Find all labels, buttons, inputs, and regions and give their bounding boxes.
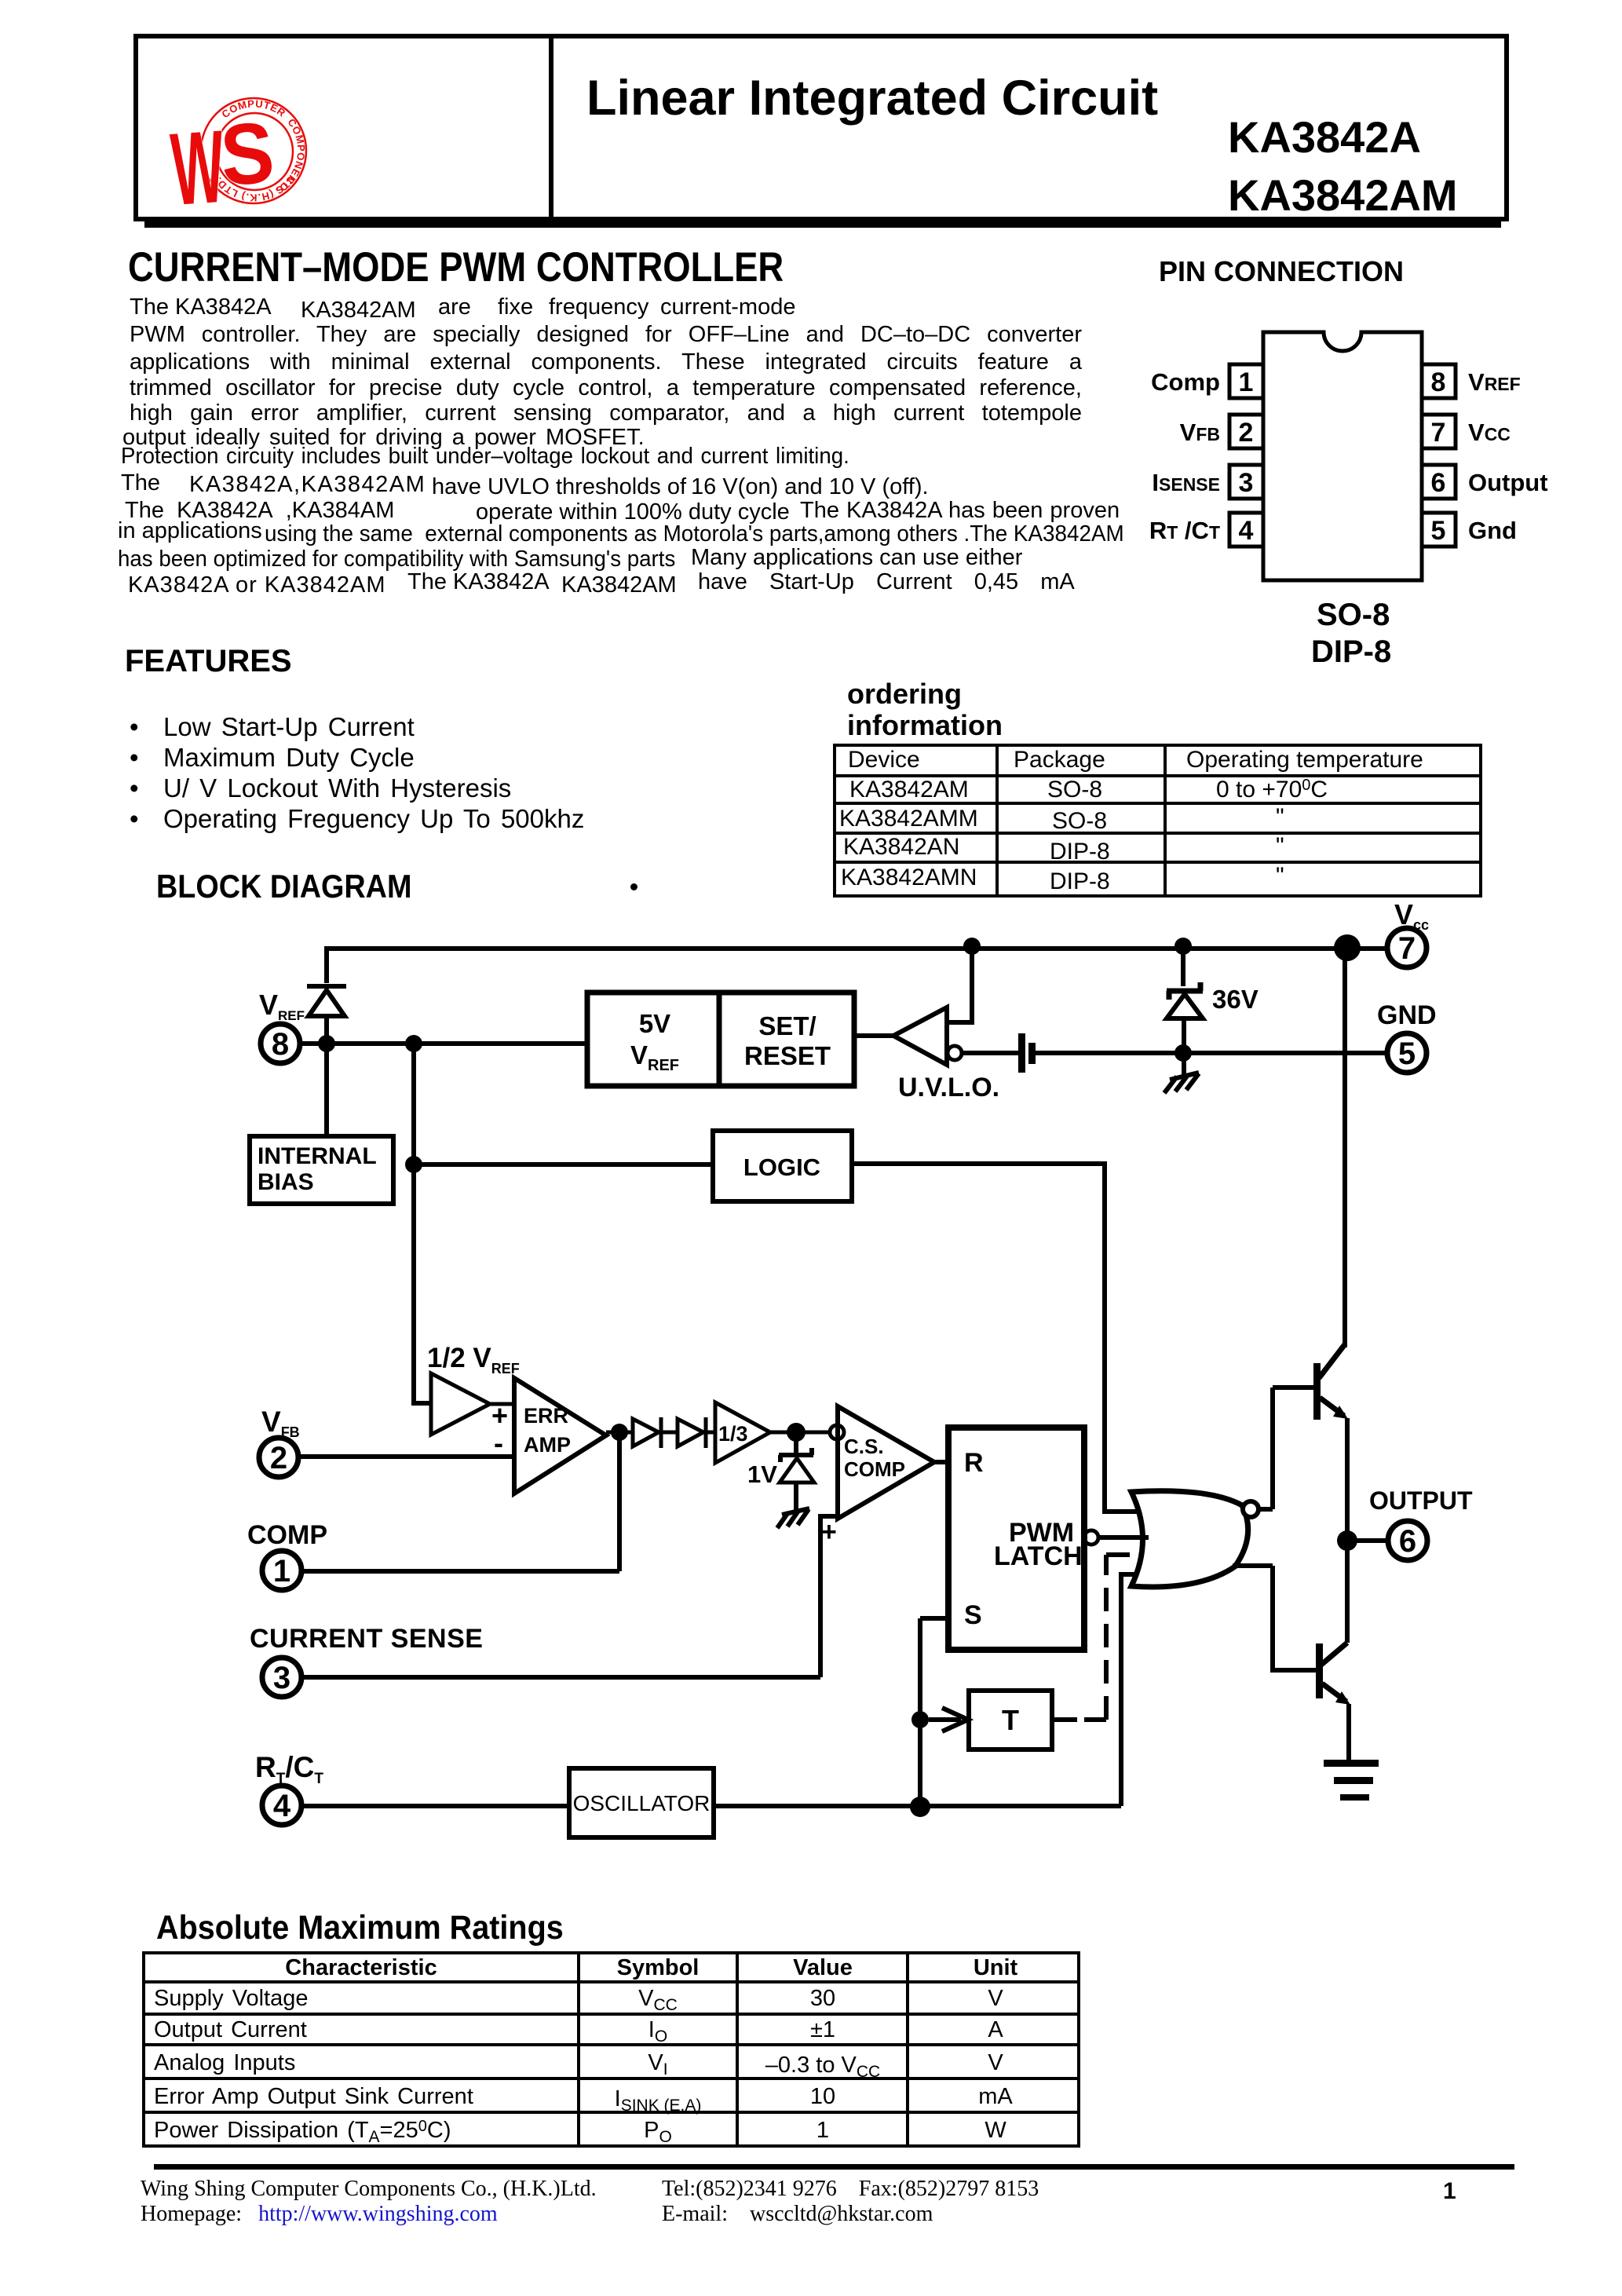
pin 6 box <box>1422 465 1456 499</box>
op-amp C.S. COMP <box>838 1406 934 1519</box>
wire uvlo output <box>962 1051 1018 1055</box>
svg-text:S: S <box>217 104 277 204</box>
transistor Q2 (bottom NPN) <box>1316 1541 1350 1760</box>
svg-text:INTERNAL: INTERNAL <box>258 1143 377 1169</box>
pin 7 box <box>1422 415 1456 448</box>
junction dot L (osc node) <box>910 1797 930 1817</box>
wire output node to pin6 <box>1347 1538 1389 1543</box>
wire S input riser <box>920 1618 948 1807</box>
wire pin4 to oscillator <box>302 1804 569 1808</box>
svg-text:7: 7 <box>1431 418 1446 448</box>
wire pin8 to 5V ref block <box>301 1041 587 1046</box>
svg-text:SET/: SET/ <box>758 1011 816 1040</box>
svg-text:4: 4 <box>273 1789 291 1823</box>
op-amp U.V.L.O. comparator <box>893 1007 962 1065</box>
capacitor C1 <box>1018 1033 1036 1073</box>
junction dot B <box>405 1035 422 1052</box>
svg-text:Characteristic: Characteristic <box>285 1955 437 1980</box>
diode D3 <box>678 1417 715 1448</box>
wire Vcc top rail <box>327 946 1386 983</box>
zener diode Z1 36V <box>1167 982 1203 1053</box>
svg-text:10: 10 <box>810 2084 835 2109</box>
junction dot A <box>318 1035 335 1052</box>
pin labels right <box>1468 370 1521 394</box>
svg-text:±1: ±1 <box>810 2017 835 2042</box>
block T (toggle) <box>969 1691 1052 1749</box>
wire buffer to erramp <box>490 1402 515 1406</box>
svg-text:VI: VI <box>648 2050 667 2078</box>
svg-text:ERR: ERR <box>524 1404 568 1428</box>
svg-text:1/3: 1/3 <box>718 1422 748 1446</box>
node pin 6 OUTPUT <box>1388 1521 1427 1560</box>
junction dot I <box>787 1423 806 1442</box>
svg-text:Symbol: Symbol <box>617 1955 700 1980</box>
block U2 5V VREF / SET-RESET <box>587 993 854 1086</box>
block LOGIC <box>713 1131 852 1201</box>
pin number labels <box>270 931 1416 1823</box>
text LOGIC <box>743 1153 820 1181</box>
svg-text:S: S <box>964 1600 982 1630</box>
text T <box>1002 1704 1019 1736</box>
svg-text:30: 30 <box>810 1986 835 2011</box>
svg-text:Power Dissipation (TA=250C): Power Dissipation (TA=250C) <box>154 2118 451 2146</box>
text R S PWM LATCH <box>964 1448 1083 1630</box>
svg-text:U.V.L.O.: U.V.L.O. <box>898 1073 999 1102</box>
junction dot C <box>405 1156 422 1173</box>
svg-text:–0.3 to VCC: –0.3 to VCC <box>765 2053 880 2081</box>
svg-text:VFB: VFB <box>261 1406 300 1440</box>
svg-text:KA3842AMN: KA3842AMN <box>841 865 977 890</box>
svg-text:AMP: AMP <box>524 1433 571 1457</box>
svg-text:COMP: COMP <box>247 1520 327 1550</box>
pin 8 box <box>1422 364 1456 398</box>
svg-text:36V: 36V <box>1212 985 1259 1014</box>
svg-text:Output Current: Output Current <box>154 2017 307 2042</box>
svg-text:5: 5 <box>1398 1036 1416 1071</box>
ground (hatched, uvlo) <box>1164 1053 1199 1093</box>
svg-text:4: 4 <box>1239 516 1254 546</box>
svg-text:mA: mA <box>978 2084 1013 2109</box>
text ERR AMP <box>524 1404 571 1457</box>
svg-text:SO-8: SO-8 <box>1052 808 1107 834</box>
zener diode Z2 1V <box>779 1432 814 1511</box>
label 1/2 VREF <box>427 1343 520 1377</box>
node pin 4 RT/CT <box>262 1786 301 1825</box>
wire vref vertical bus <box>414 1044 431 1403</box>
svg-text:": " <box>1276 863 1284 889</box>
node pin 7 Vcc <box>1387 928 1427 967</box>
svg-text:7: 7 <box>1398 931 1416 966</box>
wire dashed T feedback <box>1052 1555 1140 1720</box>
wire latch output to NOR <box>1098 1535 1149 1540</box>
svg-text:W: W <box>985 2118 1006 2143</box>
node latch output bubble <box>1084 1530 1098 1545</box>
svg-text:KA3842AM: KA3842AM <box>849 777 969 803</box>
wire NOR output to top base <box>1259 1387 1315 1509</box>
svg-text:": " <box>1276 804 1284 830</box>
svg-text:COMP: COMP <box>844 1457 905 1481</box>
transistor Q1 (top NPN) <box>1313 1344 1348 1541</box>
svg-text:KA3842AMM: KA3842AMM <box>839 806 978 832</box>
svg-text:DIP-8: DIP-8 <box>1050 839 1110 865</box>
svg-text:5V: 5V <box>639 1009 670 1038</box>
svg-text:V: V <box>988 2050 1003 2075</box>
pin 5 box <box>1422 513 1456 547</box>
svg-text:DIP-8: DIP-8 <box>1050 868 1110 894</box>
wire cscomp to latch R <box>934 1460 948 1464</box>
svg-text:2: 2 <box>1239 418 1254 448</box>
WS logo <box>149 71 338 228</box>
IC package body (DIP-8 outline) <box>1263 332 1422 580</box>
svg-text:OSCILLATOR: OSCILLATOR <box>573 1791 711 1815</box>
svg-text:Unit: Unit <box>974 1955 1018 1980</box>
svg-text:VCC: VCC <box>638 1986 678 2014</box>
label VREF (pin8) <box>259 989 305 1023</box>
label 36V <box>1212 985 1259 1014</box>
buffer 1/3 <box>715 1402 830 1463</box>
svg-text:-: - <box>494 1427 503 1459</box>
svg-text:VREF: VREF <box>259 989 305 1023</box>
pin 2 box <box>1229 415 1263 448</box>
label GND (pin5) <box>1377 1000 1437 1030</box>
op-amp ERR AMP <box>514 1378 606 1493</box>
wire NOR bottom tap to bottom base <box>1233 1566 1317 1670</box>
svg-text:CURRENT SENSE: CURRENT SENSE <box>250 1624 483 1654</box>
label CURRENT SENSE (pin3) <box>250 1624 483 1654</box>
svg-text:3: 3 <box>1239 468 1254 498</box>
wire oscillator to NOR bottom input <box>714 1574 1138 1806</box>
wire arrow into T <box>929 1708 968 1731</box>
text C.S. COMP <box>844 1435 905 1481</box>
svg-text:LOGIC: LOGIC <box>743 1153 820 1181</box>
svg-text:LATCH: LATCH <box>994 1541 1083 1571</box>
wire gnd rail <box>1036 1051 1386 1055</box>
text plus cscomp <box>821 1517 837 1547</box>
svg-text:2: 2 <box>270 1441 287 1475</box>
svg-text:8: 8 <box>272 1027 289 1062</box>
wire internal bias drop <box>324 1044 329 1136</box>
svg-text:Error Amp Output Sink Current: Error Amp Output Sink Current <box>154 2084 473 2109</box>
gate NOR U3 <box>1131 1491 1259 1587</box>
svg-text:OUTPUT: OUTPUT <box>1369 1486 1473 1515</box>
label OUTPUT (pin6) <box>1369 1486 1473 1515</box>
svg-text:PO: PO <box>644 2118 672 2146</box>
wire zener drop <box>1181 946 1185 986</box>
junction dot F <box>1174 938 1192 955</box>
svg-text:3: 3 <box>273 1661 290 1695</box>
label COMP (pin1) <box>247 1520 327 1550</box>
ground (hatched, 1V) <box>777 1508 809 1528</box>
body paragraph <box>130 296 169 319</box>
wire comp feedback <box>302 1432 619 1571</box>
svg-text:RT/CT: RT/CT <box>255 1751 323 1787</box>
svg-text:+: + <box>821 1517 837 1547</box>
svg-text:Supply Voltage: Supply Voltage <box>154 1986 308 2011</box>
wire bias to logic <box>414 1162 713 1167</box>
svg-text:1/2 VREF: 1/2 VREF <box>427 1343 520 1377</box>
svg-text:R: R <box>964 1448 984 1478</box>
svg-text:C.S.: C.S. <box>844 1435 884 1458</box>
text INTERNAL BIAS <box>258 1143 377 1195</box>
text OSCILLATOR <box>573 1791 711 1815</box>
svg-text:6: 6 <box>1399 1524 1416 1559</box>
svg-text:Operating temperature: Operating temperature <box>1186 747 1423 773</box>
junction dot G (Vcc big) <box>1334 934 1361 961</box>
text SET/RESET <box>744 1011 831 1070</box>
svg-text:6: 6 <box>1431 468 1446 498</box>
label U.V.L.O. <box>898 1073 999 1102</box>
block INTERNAL BIAS <box>250 1136 393 1204</box>
svg-text:1: 1 <box>816 2118 829 2143</box>
svg-text:8: 8 <box>1431 367 1446 397</box>
wire pin2 to erramp <box>299 1454 514 1459</box>
svg-text:SO-8: SO-8 <box>1047 777 1102 803</box>
pin 3 box <box>1229 465 1263 499</box>
node CS comp inverting input bubble <box>830 1425 844 1439</box>
svg-text:GND: GND <box>1377 1000 1437 1030</box>
block OSCILLATOR <box>569 1768 714 1837</box>
diode D2 <box>633 1417 678 1448</box>
pin 1 box <box>1229 364 1263 398</box>
junction dot H (err out) <box>611 1424 628 1441</box>
svg-text:Analog Inputs: Analog Inputs <box>154 2050 295 2075</box>
text plus minus erramp <box>491 1399 508 1459</box>
wire err output <box>606 1431 633 1435</box>
junction dot E <box>1174 1044 1192 1062</box>
node pin 5 GND <box>1387 1033 1427 1073</box>
block PWM LATCH <box>948 1428 1084 1650</box>
svg-text:Package: Package <box>1014 747 1105 773</box>
svg-text:1V: 1V <box>747 1461 777 1488</box>
wire uvlo sense input <box>947 946 972 1022</box>
svg-text:1: 1 <box>273 1554 290 1589</box>
junction dot K <box>911 1711 929 1728</box>
svg-text:Vcc: Vcc <box>1394 898 1429 933</box>
svg-text:T: T <box>1002 1704 1019 1736</box>
label 1V <box>747 1461 777 1488</box>
svg-text:RESET: RESET <box>744 1041 831 1070</box>
svg-text:Value: Value <box>793 1955 853 1980</box>
label RT/CT (pin4) <box>255 1751 323 1787</box>
svg-text:IO: IO <box>648 2017 667 2046</box>
junction dot D <box>963 938 981 955</box>
svg-text:A: A <box>988 2017 1003 2042</box>
label Vcc (pin7) <box>1394 898 1429 933</box>
svg-text:1: 1 <box>1239 367 1254 397</box>
svg-text:BIAS: BIAS <box>258 1169 314 1195</box>
svg-text:5: 5 <box>1431 516 1446 546</box>
svg-text:": " <box>1276 833 1284 859</box>
ground (output stage) <box>1324 1760 1379 1801</box>
label VFB (pin2) <box>261 1406 300 1440</box>
junction dot J (output node) <box>1337 1530 1357 1551</box>
svg-text:VREF: VREF <box>630 1040 679 1074</box>
buffer 1/2 VREF <box>431 1373 490 1435</box>
wire setreset to uvlo <box>854 1033 895 1038</box>
node pin 8 VREF <box>261 1024 300 1063</box>
node pin 2 VFB <box>259 1438 298 1477</box>
text 1/3 <box>718 1422 748 1446</box>
wire pin3 to cscomp <box>302 1516 838 1677</box>
diode D1 VREF clamp <box>307 986 346 1046</box>
node pin 3 CURRENT SENSE <box>262 1658 301 1697</box>
svg-text:V: V <box>988 1986 1003 2011</box>
svg-text:Device: Device <box>848 747 920 773</box>
node pin 1 COMP <box>262 1551 301 1590</box>
pin 4 box <box>1229 513 1263 547</box>
wire Vcc to output collector <box>1343 948 1347 1347</box>
svg-text:ISINK (E.A): ISINK (E.A) <box>615 2086 702 2115</box>
svg-text:0 to +700C: 0 to +700C <box>1216 777 1328 803</box>
svg-text:KA3842AN: KA3842AN <box>843 834 959 860</box>
wire logic to NOR gate <box>852 1164 1140 1512</box>
text 5V VREF <box>630 1009 679 1074</box>
pin labels left <box>1151 370 1220 394</box>
